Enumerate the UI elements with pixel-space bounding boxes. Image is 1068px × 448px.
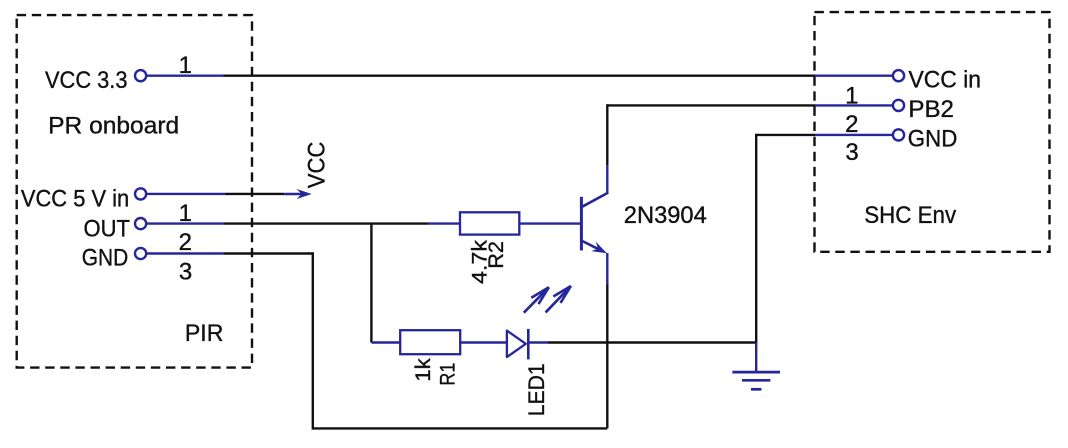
pin number 3 (SHC): [845, 139, 858, 166]
svg-text:1k: 1k: [412, 358, 435, 382]
diode LED1: [507, 329, 548, 360]
wire GND SHC pin stub (blue): [815, 134, 892, 136]
pin VCC 5 V in label: [21, 186, 129, 213]
svg-text:PR onboard: PR onboard: [48, 112, 179, 139]
svg-text:GND: GND: [82, 244, 129, 271]
wire PB2 pin stub (blue): [815, 104, 892, 106]
svg-text:GND: GND: [908, 125, 958, 152]
wire R2 left stub (blue): [428, 222, 460, 224]
wire PB2 horizontal (black): [607, 104, 815, 106]
svg-text:SHC Env: SHC Env: [864, 202, 956, 229]
pin GND (PIR) label: [82, 244, 129, 271]
pin PB2 label: [908, 96, 954, 123]
wire OUT to R2 (black): [224, 222, 428, 224]
svg-text:1: 1: [845, 82, 858, 109]
wire VCC in pin stub (blue): [815, 74, 892, 76]
power symbol VCC arrow: [284, 189, 311, 199]
label PR onboard: [48, 112, 179, 139]
wire Q1 collector up (black): [606, 104, 608, 165]
label PIR: [185, 320, 224, 347]
LED1 emission arrow 2: [546, 286, 571, 312]
pin number 3 (PIR): [179, 259, 192, 286]
pin number 1 (OUT): [179, 200, 192, 227]
wire GND PIR pin stub (blue): [147, 252, 224, 254]
connector J1 PIR dashed box: [17, 15, 252, 368]
pin number 2 (GND SHC): [845, 111, 858, 138]
pin number 1 (VCC 3.3): [179, 52, 192, 79]
pin VCC 3.3 circle: [135, 70, 146, 81]
pin number 1 (PB2): [845, 82, 858, 109]
wire LED1 cathode to ground node (black): [548, 341, 756, 343]
svg-text:2: 2: [179, 229, 192, 256]
wire R1 left stub (blue): [371, 341, 400, 343]
wire VCC5V pin stub (blue): [147, 193, 225, 195]
pin number 2 (GND PIR): [179, 229, 192, 256]
svg-text:2: 2: [845, 111, 858, 138]
wire R2 right to Q1 base (blue): [519, 222, 580, 224]
pin GND (SHC) label: [908, 125, 958, 152]
svg-text:OUT: OUT: [84, 215, 131, 242]
svg-text:PB2: PB2: [908, 96, 954, 123]
svg-text:3: 3: [845, 139, 858, 166]
resistor R2 body: [460, 212, 519, 234]
wire Q1 emitter down (black): [606, 284, 608, 428]
pin GND (PIR) circle: [135, 248, 146, 259]
ground symbol: [732, 343, 780, 390]
wire bottom horizontal (black): [313, 427, 608, 429]
label R1 (rotated): [437, 363, 460, 386]
label 1k (rotated): [412, 358, 435, 382]
svg-text:VCC in: VCC in: [909, 67, 982, 94]
wire VCC3.3 pin stub (blue): [147, 74, 224, 76]
svg-text:R2: R2: [485, 241, 508, 269]
svg-text:R1: R1: [437, 363, 460, 386]
pin OUT label: [84, 215, 131, 242]
transistor Q1 2N3904: [581, 165, 608, 284]
svg-text:VCC 5 V in: VCC 5 V in: [21, 186, 129, 213]
svg-text:PIR: PIR: [185, 320, 224, 347]
label 4.7k (rotated): [469, 239, 492, 284]
pin GND (SHC) circle: [893, 129, 904, 140]
label LED1 (rotated): [524, 363, 549, 416]
svg-text:VCC: VCC: [303, 142, 330, 189]
resistor R1 body: [400, 330, 460, 354]
label VCC (rotated): [303, 142, 330, 189]
wire VCC3.3 to VCC in (black): [224, 74, 816, 76]
connector J2 SHC Env dashed box: [815, 12, 1050, 252]
pin VCC in circle: [893, 70, 904, 81]
svg-text:3: 3: [179, 259, 192, 286]
label R2 (rotated): [485, 241, 508, 269]
wire GND SHC vertical down (black): [755, 134, 757, 343]
pin VCC 3.3 label: [45, 67, 128, 94]
wire VCC5V to VCC symbol (black): [225, 193, 284, 195]
LED1 emission arrow 1: [524, 287, 549, 313]
pin PB2 circle: [893, 100, 904, 111]
wire GND SHC horizontal (black): [756, 134, 815, 136]
wire GND PIR horizontal (black): [224, 252, 313, 254]
label 2N3904: [624, 202, 707, 229]
label SHC Env: [864, 202, 956, 229]
pin VCC 5 V in circle: [135, 188, 146, 199]
wire branch down to R1 (black): [370, 224, 372, 343]
svg-text:2N3904: 2N3904: [624, 202, 707, 229]
wire R1 to LED1 (blue): [460, 341, 507, 343]
wire OUT pin stub (blue): [147, 222, 224, 224]
pin OUT circle: [135, 218, 146, 229]
svg-text:VCC 3.3: VCC 3.3: [45, 67, 128, 94]
wire GND PIR vertical down (black): [312, 252, 314, 429]
svg-text:LED1: LED1: [524, 363, 549, 416]
pin VCC in label: [909, 67, 982, 94]
